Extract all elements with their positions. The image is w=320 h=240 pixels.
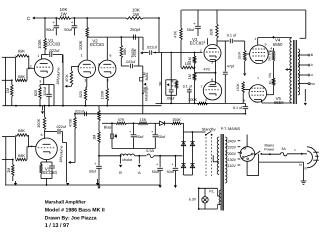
- resistor 100K cathode V2b: [101, 78, 109, 107]
- svg-text:50uf: 50uf: [89, 169, 96, 173]
- transformer OT secondary winding: [298, 49, 300, 95]
- label V3 ECC83: [190, 37, 204, 46]
- capacitor 50uf bias 1: [129, 122, 144, 148]
- wire B+ riser: [159, 18, 162, 103]
- heater hook wire: [218, 188, 221, 209]
- resistor 470K ch1: [65, 71, 73, 85]
- pin 1 V5: [257, 76, 259, 80]
- svg-text:1M: 1M: [187, 74, 192, 79]
- svg-text:1W: 1W: [133, 12, 140, 17]
- node A arrow: [138, 155, 141, 175]
- earth ground: [301, 162, 308, 184]
- potentiometer 5K hum balance: [159, 52, 177, 96]
- wire V1a plate lead: [41, 55, 43, 60]
- svg-text:3: 3: [211, 60, 213, 64]
- tube V1 triode a: [34, 59, 53, 78]
- svg-text:1M: 1M: [59, 157, 63, 162]
- svg-text:Model # 1986 Bass MK II: Model # 1986 Bass MK II: [45, 207, 106, 213]
- pilot circuit wires: [198, 187, 218, 210]
- resistor 68K grid 1: [16, 49, 29, 69]
- resistor 1M PI grid lower: [187, 73, 196, 103]
- svg-text:4: 4: [270, 47, 272, 51]
- wire grid V1b: [28, 146, 36, 148]
- svg-text:220V: 220V: [228, 146, 237, 150]
- label P.T. MAINS: [221, 127, 241, 131]
- resistor 15K bias: [138, 118, 148, 124]
- wire tone stack left: [120, 36, 122, 45]
- wire mixing bus: [75, 113, 245, 115]
- svg-text:choke: choke: [122, 158, 132, 162]
- wire screen supply: [273, 36, 275, 51]
- svg-text:1M: 1M: [56, 79, 60, 84]
- resistor 10K PI: [181, 62, 195, 69]
- pin 8 V1b: [40, 162, 42, 166]
- svg-text:320uf: 320uf: [43, 87, 47, 96]
- svg-text:9: 9: [98, 63, 100, 67]
- selector neutral link: [247, 175, 259, 177]
- svg-text:0.5A: 0.5A: [146, 149, 154, 153]
- capacitor 50uf filter 1: [46, 18, 59, 35]
- OT secondary ground: [304, 89, 307, 106]
- svg-text:1W: 1W: [60, 12, 67, 17]
- bridge rectifier right leg: [184, 132, 195, 175]
- svg-text:150K: 150K: [172, 118, 181, 122]
- pin 3 V3: [211, 60, 213, 64]
- heater tap arrow: [41, 106, 44, 114]
- wire bridge to standby: [192, 131, 206, 133]
- svg-text:Marshall Amplifier: Marshall Amplifier: [45, 199, 86, 205]
- wire bias chain 3: [148, 122, 160, 124]
- capacitor 50uf HT bleed: [89, 156, 102, 189]
- svg-text:100K: 100K: [37, 39, 42, 49]
- label 130V: [228, 158, 237, 162]
- svg-text:470: 470: [204, 68, 210, 72]
- resistor 100K PI grid leak: [188, 97, 207, 104]
- capacitor 0.1uf to V5: [233, 103, 248, 114]
- resistor 68K tone: [120, 45, 127, 66]
- wire coupling to volume: [53, 55, 63, 64]
- svg-text:110V: 110V: [228, 164, 237, 168]
- wire cathode V1a: [40, 77, 54, 105]
- pin 3 V2a: [84, 79, 86, 83]
- wire cathode V1b: [41, 160, 52, 162]
- wire B+ rail segment 1: [35, 17, 58, 19]
- resistor 820 cathode V1b: [40, 162, 52, 179]
- svg-text:250pf: 250pf: [130, 27, 141, 32]
- wire V2a plate lead: [86, 50, 88, 61]
- pin 9 V4: [265, 42, 267, 46]
- wire PI lower line: [156, 103, 246, 105]
- svg-text:0.1 uf: 0.1 uf: [183, 84, 192, 88]
- voltage selector: [240, 135, 255, 176]
- resistor 100K plate load V1b: [36, 105, 46, 130]
- svg-text:2K: 2K: [114, 133, 118, 138]
- wire center tap link: [213, 155, 219, 162]
- svg-text:L: L: [294, 148, 296, 152]
- resistor 100K plate load V1a: [37, 18, 46, 50]
- potentiometer 1M Volume ch2: [59, 143, 71, 183]
- node C label and arrow: [27, 16, 35, 21]
- svg-text:100K: 100K: [188, 97, 197, 102]
- capacitor 47pf feedback: [223, 41, 235, 103]
- svg-text:1M: 1M: [187, 57, 192, 62]
- wire selector to switch: [254, 153, 257, 155]
- tube V1 triode b: [36, 138, 58, 160]
- wire bias bottom: [112, 148, 155, 150]
- resistor 10K 1W (first): [58, 7, 71, 19]
- input jack 2 wires: [2, 137, 16, 186]
- svg-text:.022uf: .022uf: [74, 109, 84, 113]
- mains plug: [307, 147, 319, 168]
- svg-text:50uf: 50uf: [136, 135, 144, 139]
- svg-text:P.T. MAINS: P.T. MAINS: [221, 127, 241, 131]
- junction dots ground bus: [15, 105, 64, 107]
- pin 6 V3: [205, 98, 207, 102]
- transformer PT HV secondary: [225, 137, 227, 183]
- tube V5 6550: [249, 85, 267, 103]
- switch Standby: [202, 127, 216, 135]
- svg-text:4: 4: [311, 73, 313, 77]
- pin 7 V1b: [31, 144, 33, 148]
- svg-text:ECC83: ECC83: [90, 42, 104, 47]
- svg-text:50uf: 50uf: [152, 170, 160, 174]
- svg-text:470K: 470K: [65, 74, 69, 83]
- ground bus lower: [5, 184, 160, 186]
- potentiometer 25K Midrange: [142, 83, 149, 101]
- svg-text:820: 820: [79, 91, 83, 97]
- wire tone stack bottom: [121, 65, 129, 67]
- svg-text:Bias: Bias: [104, 125, 112, 130]
- svg-text:820: 820: [34, 90, 38, 96]
- svg-text:8: 8: [211, 78, 213, 82]
- svg-text:130V: 130V: [228, 158, 237, 162]
- resistor 47K bias: [116, 118, 127, 124]
- wire grid V1a: [29, 67, 35, 69]
- svg-text:1M: 1M: [6, 168, 11, 173]
- capacitor .022uf coupling V1b: [56, 125, 67, 143]
- capacitor 0.1uf to V4: [217, 34, 245, 44]
- pin 3 V1a: [39, 80, 41, 84]
- label 220V: [228, 146, 237, 150]
- svg-text:5K: 5K: [159, 81, 163, 86]
- selector tap wires: [238, 141, 241, 165]
- label 110V: [228, 164, 237, 168]
- transformer OT primary winding: [290, 38, 292, 103]
- svg-text:1M: 1M: [92, 135, 96, 140]
- capacitor .05uf PI: [166, 80, 177, 104]
- label V5 6550: [274, 96, 284, 105]
- lamp P.L.: [202, 188, 208, 209]
- resistor 1K 5W screen V5: [268, 73, 275, 95]
- pin 1 V1a: [38, 54, 40, 58]
- pin 9 V2: [98, 63, 100, 67]
- tube V3 triode a: [204, 45, 221, 62]
- svg-text:68K: 68K: [18, 74, 25, 79]
- wire V5 screen: [267, 94, 274, 96]
- svg-text:5W: 5W: [268, 73, 272, 78]
- transformer PT core: [221, 134, 223, 211]
- label P.L.: [209, 190, 215, 194]
- svg-text:3: 3: [39, 80, 41, 84]
- svg-text:200V: 200V: [228, 152, 237, 156]
- svg-text:1: 1: [204, 40, 206, 44]
- svg-text:Ohm: Ohm: [308, 82, 315, 86]
- resistor 820 cathode V1a: [34, 85, 41, 106]
- svg-text:15K: 15K: [140, 118, 147, 122]
- svg-text:.022uf: .022uf: [125, 60, 135, 64]
- wiper wire to V2 grid: [67, 66, 78, 86]
- svg-text:68K: 68K: [123, 48, 127, 55]
- wire V5 grid feed: [243, 89, 249, 91]
- title line 2: [45, 207, 106, 213]
- wire V2b plate lead: [106, 37, 108, 60]
- PT voltage taps: [226, 141, 227, 165]
- title line 1: [45, 199, 86, 205]
- resistor 1K 5W screen V4: [268, 51, 275, 78]
- svg-text:47pf: 47pf: [227, 65, 235, 69]
- svg-text:.022uf: .022uf: [56, 125, 67, 129]
- svg-text:Drawn By: Joe Piazza: Drawn By: Joe Piazza: [45, 215, 97, 221]
- switch Mains Power: [255, 144, 281, 156]
- resistor 470K ch2: [69, 113, 77, 129]
- svg-text:1M: 1M: [5, 88, 10, 93]
- capacitor 0.1uf PI: [183, 84, 192, 103]
- capacitor .022uf coupling V1a: [49, 48, 61, 57]
- bridge rectifier left leg: [181, 132, 185, 175]
- capacitor 320uf cathode V1b: [49, 162, 55, 179]
- svg-text:Power: Power: [264, 148, 275, 152]
- wire cathode ground V1b: [46, 179, 48, 186]
- capacitor 320uf cathode V1a: [43, 85, 52, 106]
- svg-text:240V: 240V: [228, 139, 237, 143]
- wire bias to bridge: [182, 123, 184, 132]
- pin 1 V3: [204, 38, 208, 45]
- svg-text:9: 9: [265, 42, 267, 46]
- svg-text:1: 1: [81, 54, 83, 58]
- svg-text:68K: 68K: [18, 49, 25, 54]
- wire V4 screen: [268, 50, 273, 52]
- wire V5 plate: [262, 100, 293, 103]
- resistor 470 PI tail: [195, 60, 217, 85]
- transformer PT heater winding: [219, 190, 221, 205]
- diode bias: [160, 121, 172, 125]
- wiper wire volume 2: [71, 129, 75, 163]
- svg-text:1: 1: [254, 37, 256, 41]
- svg-text:ECC83: ECC83: [46, 42, 60, 47]
- capacitor .022uf bass: [125, 60, 142, 68]
- capacitor 50uf PI supply: [187, 10, 201, 36]
- svg-text:A: A: [138, 170, 141, 175]
- svg-text:8: 8: [311, 63, 313, 67]
- capacitor 50uf HT 1: [152, 155, 163, 188]
- tube V4 6550: [250, 45, 269, 64]
- ground bus preamp: [3, 105, 162, 107]
- wire bias chain: [102, 122, 116, 124]
- svg-text:Volume: Volume: [56, 68, 60, 80]
- svg-text:50uf: 50uf: [64, 27, 72, 32]
- resistor 4.7K PI: [170, 79, 177, 95]
- svg-text:50uf: 50uf: [167, 170, 175, 174]
- svg-text:150K: 150K: [236, 83, 240, 92]
- svg-text:5W: 5W: [268, 56, 272, 61]
- svg-text:6550: 6550: [274, 100, 284, 105]
- resistor 10K 1W (second): [126, 7, 143, 19]
- svg-text:6: 6: [243, 99, 245, 103]
- resistor 150K bias: [172, 118, 182, 124]
- wire B+ rail segment 3: [143, 17, 159, 19]
- wire B+ rail top right: [181, 9, 305, 11]
- svg-text:150K: 150K: [237, 51, 241, 60]
- capacitor 50uf bias 2: [151, 123, 166, 148]
- pin 6 V1b: [41, 133, 43, 137]
- OT secondary taps: [298, 54, 310, 85]
- pin 6 V2b: [109, 54, 111, 58]
- svg-text:3A: 3A: [281, 147, 286, 151]
- svg-text:0.1 uf: 0.1 uf: [233, 106, 243, 110]
- pin 2 V1a: [30, 65, 32, 69]
- pin 8 V2b: [107, 79, 109, 83]
- title line 4: [45, 223, 69, 229]
- junction dot input: [11, 79, 13, 81]
- svg-text:250K: 250K: [133, 48, 137, 57]
- wire plate node V1a: [42, 50, 49, 55]
- svg-text:Standby: Standby: [202, 127, 216, 131]
- tube V3 triode b: [203, 82, 221, 100]
- pin 6 V5: [243, 99, 245, 103]
- svg-text:47K: 47K: [118, 118, 125, 122]
- resistor 82K plate load V3b: [210, 10, 219, 46]
- pin 4 V4: [270, 47, 272, 51]
- wire V4 plate: [258, 38, 292, 46]
- fuse 3A: [281, 147, 287, 156]
- wire HT line 2: [135, 155, 147, 157]
- input jack 1 wires: [2, 57, 16, 105]
- wire live to plug: [287, 148, 307, 155]
- svg-text:2: 2: [200, 49, 202, 53]
- svg-text:ECC83: ECC83: [43, 170, 57, 175]
- fuse 0.5A: [146, 149, 154, 158]
- wire HT line: [99, 155, 120, 157]
- svg-text:P.L.: P.L.: [209, 190, 215, 194]
- label 240V: [228, 139, 237, 143]
- resistor 100K plate load V2: [78, 18, 88, 50]
- screen tap arrow: [285, 68, 292, 71]
- svg-text:6: 6: [109, 54, 111, 58]
- resistor 1M HT bleed: [92, 106, 100, 157]
- svg-text:68K: 68K: [18, 128, 25, 133]
- svg-text:6550: 6550: [273, 42, 283, 47]
- label Bias: [104, 125, 112, 130]
- pin 7 V3: [201, 85, 203, 89]
- label V4 6550: [273, 38, 283, 47]
- resistor 1M PI grid upper: [187, 52, 196, 73]
- wire bias chain 2: [127, 122, 139, 124]
- potentiometer 2K bias: [111, 122, 118, 148]
- resistor 68K grid 4: [16, 147, 28, 161]
- junction dot treble out: [154, 52, 156, 54]
- label output taps: [308, 53, 315, 86]
- tube V2 triode a: [78, 60, 95, 77]
- wire neutral: [259, 154, 304, 176]
- label 6.3V: [189, 198, 197, 202]
- resistor 820 cathode V2a: [79, 78, 87, 107]
- pin 2 V3: [200, 49, 202, 53]
- wire B+ rail segment 2: [71, 17, 126, 19]
- pin 1 V2a: [81, 54, 83, 58]
- potentiometer Treble 250K: [130, 37, 142, 66]
- junction dots on B+ rail: [44, 17, 160, 19]
- capacitor .022uf treble out: [143, 46, 203, 55]
- resistor 68K grid 2: [16, 67, 30, 81]
- svg-text:.022uf: .022uf: [146, 46, 158, 50]
- svg-text:100K: 100K: [101, 90, 105, 99]
- transformer PT primary winding: [217, 137, 219, 175]
- wire plate node line V2: [87, 36, 143, 38]
- potentiometer 1M Bass: [140, 66, 149, 114]
- svg-text:50uf: 50uf: [46, 27, 54, 32]
- wire tone stack right: [142, 37, 144, 50]
- inductor choke: [120, 154, 135, 162]
- svg-text:Volume: Volume: [59, 146, 63, 158]
- svg-text:3: 3: [84, 79, 86, 83]
- transformer OT core: [293, 40, 296, 104]
- svg-text:6.3V: 6.3V: [189, 198, 197, 202]
- pin 8 V4: [245, 57, 247, 61]
- resistor 1M input ch1: [5, 80, 13, 105]
- label V1 ECC83 lower: [43, 166, 57, 175]
- pin 1 V4: [254, 37, 256, 41]
- svg-text:470K: 470K: [69, 118, 73, 127]
- resistor 47K plate load V3a: [173, 10, 182, 68]
- svg-text:0.1 uf: 0.1 uf: [227, 34, 237, 38]
- tube V2 triode b: [99, 60, 116, 77]
- node B arrow: [119, 155, 122, 175]
- svg-text:ECC83: ECC83: [190, 41, 204, 46]
- wire HT line 3: [154, 155, 183, 157]
- svg-text:100K: 100K: [36, 118, 41, 127]
- resistor 68K grid 3: [16, 128, 29, 146]
- wire B+ drop to OT: [300, 10, 306, 38]
- svg-text:Bass: Bass: [145, 72, 149, 80]
- label V2 ECC83: [90, 38, 104, 47]
- label V1 ECC83: [46, 38, 60, 47]
- capacitor 50uf filter 2: [64, 18, 77, 35]
- svg-text:50uf: 50uf: [187, 28, 195, 32]
- svg-text:.022uf: .022uf: [49, 48, 61, 53]
- svg-text:82K: 82K: [210, 28, 214, 35]
- capacitor .022uf ch2 mix: [74, 109, 86, 116]
- capacitor 250pf treble: [130, 27, 141, 40]
- svg-text:Midrange: Midrange: [145, 86, 149, 101]
- svg-text:47K: 47K: [173, 30, 177, 37]
- svg-text:B: B: [119, 170, 122, 175]
- svg-text:68K: 68K: [18, 153, 25, 158]
- potentiometer 1M Volume ch1: [56, 55, 68, 106]
- svg-text:1: 1: [257, 76, 259, 80]
- wire V1b plate node: [45, 130, 58, 139]
- svg-text:6: 6: [41, 133, 43, 137]
- svg-text:7: 7: [201, 85, 203, 89]
- resistor 1M input ch2: [6, 159, 14, 181]
- capacitor 50uf HT 2: [167, 155, 179, 188]
- label 200V: [228, 152, 237, 156]
- svg-text:100K: 100K: [78, 40, 83, 50]
- title line 3: [45, 215, 97, 221]
- ground arrows lower bus: [14, 179, 99, 186]
- resistor 150K grid leak V5: [236, 82, 245, 104]
- resistor 150K grid leak V4: [237, 41, 250, 76]
- svg-text:1 / 13 / 97: 1 / 13 / 97: [45, 223, 69, 229]
